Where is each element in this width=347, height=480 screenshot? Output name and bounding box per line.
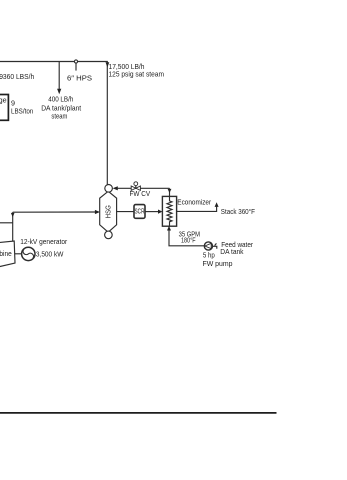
pump outlet spout bbox=[213, 246, 217, 248]
economizer coil bbox=[167, 196, 172, 226]
pump outlet tick bbox=[215, 243, 217, 245]
svg-text:6″ HPS: 6″ HPS bbox=[67, 73, 92, 82]
control valve FW CV body bbox=[131, 186, 140, 190]
box: storage bin (clipped at left edge) bbox=[0, 95, 8, 121]
HSG vessel body bbox=[100, 191, 117, 232]
arrowhead: flow down at riser corner bbox=[11, 213, 15, 217]
svg-text:LBS/ton: LBS/ton bbox=[11, 107, 33, 116]
svg-text:400 LB/h: 400 LB/h bbox=[48, 95, 73, 104]
FW CV actuator circle bbox=[134, 182, 138, 186]
wire: feedwater riser from pump to economizer bbox=[169, 226, 204, 246]
svg-text:180°F: 180°F bbox=[181, 235, 196, 244]
generator bbox=[22, 247, 35, 260]
svg-text:HSG: HSG bbox=[104, 205, 113, 219]
svg-text:Turbine: Turbine bbox=[0, 249, 12, 258]
wire: HSG to SCR bbox=[117, 211, 134, 213]
FW CV actuator stem bbox=[135, 186, 137, 189]
arrowhead: stack up bbox=[215, 202, 219, 207]
FW pump bbox=[204, 242, 212, 250]
svg-text:12-kV generator: 12-kV generator bbox=[20, 237, 68, 246]
wire: feedwater line to HSG top drum bbox=[118, 187, 170, 189]
wire: tap stub bbox=[75, 63, 77, 71]
svg-text:steam: steam bbox=[51, 112, 67, 121]
wire: vertical riser above turbine bbox=[12, 212, 14, 241]
svg-text:SCR: SCR bbox=[135, 206, 145, 215]
wire: stack outlet bbox=[177, 207, 217, 212]
arrowhead: into economizer left side bbox=[158, 210, 162, 214]
arrowhead: flow up into economizer bottom bbox=[167, 226, 171, 231]
wire: feedwater down into economizer top bbox=[169, 188, 171, 196]
wire: main HPS steam header top bbox=[0, 62, 107, 185]
wire: SCR to economizer bbox=[145, 211, 158, 213]
horizontal rule at bottom bbox=[0, 412, 277, 414]
svg-text:FW CV: FW CV bbox=[130, 189, 151, 198]
economizer shell bbox=[162, 196, 176, 226]
SCR unit bbox=[134, 205, 145, 219]
HSG top drum bbox=[105, 185, 113, 193]
shaft: turbine to generator bbox=[15, 253, 22, 255]
pump impeller triangle bbox=[205, 243, 211, 248]
generator sine wave bbox=[23, 249, 33, 258]
turbine (clipped at left edge) bbox=[0, 241, 15, 268]
svg-text:125 psig sat steam: 125 psig sat steam bbox=[109, 69, 165, 78]
HSG bottom drum bbox=[105, 231, 113, 239]
arrowhead: flow down at header corner bbox=[106, 62, 110, 67]
svg-text:DA tank: DA tank bbox=[220, 247, 244, 256]
wire: steam line from turbine riser to HSG bbox=[13, 211, 96, 213]
svg-text:Economizer: Economizer bbox=[177, 198, 211, 207]
wire: line from left edge joining riser bbox=[0, 222, 13, 224]
svg-text:FW pump: FW pump bbox=[203, 259, 233, 268]
svg-text:9360 LBS/h: 9360 LBS/h bbox=[0, 72, 34, 81]
arrowhead: into HSG top drum bbox=[113, 186, 118, 190]
svg-text:Stack 360°F: Stack 360°F bbox=[221, 207, 256, 216]
arrow: 400 LB/h DA tank/plant steam takeoff bbox=[58, 62, 60, 90]
arrowhead: flow down into economizer bbox=[168, 189, 172, 193]
svg-text:age: age bbox=[0, 95, 7, 104]
svg-text:3,500 kW: 3,500 kW bbox=[36, 249, 64, 258]
node: 6in HPS tap junction bbox=[74, 60, 77, 63]
arrowhead: into HSG left side bbox=[95, 210, 100, 214]
